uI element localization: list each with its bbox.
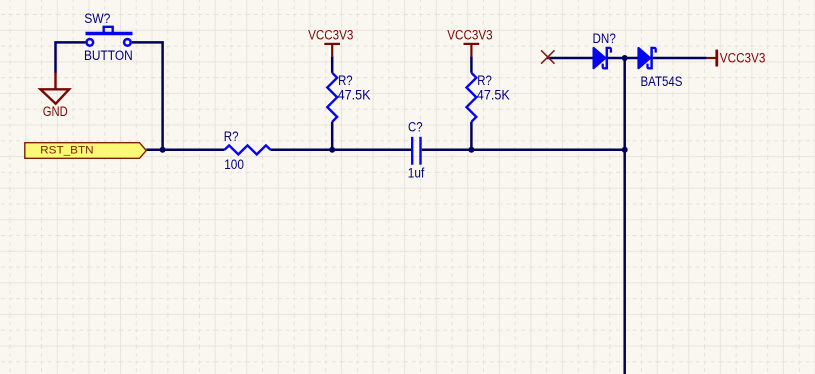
svg-text:47.5K: 47.5K [477, 88, 510, 103]
svg-text:BUTTON: BUTTON [84, 48, 133, 63]
svg-text:SW?: SW? [84, 11, 110, 26]
svg-text:RST_BTN: RST_BTN [40, 144, 93, 156]
svg-text:100: 100 [224, 157, 244, 172]
svg-text:VCC3V3: VCC3V3 [720, 50, 766, 65]
svg-text:BAT54S: BAT54S [641, 74, 683, 89]
svg-text:1uf: 1uf [408, 166, 425, 181]
svg-text:VCC3V3: VCC3V3 [308, 28, 353, 43]
svg-text:R?: R? [477, 73, 492, 88]
svg-text:R?: R? [338, 73, 353, 88]
svg-text:C?: C? [408, 120, 423, 135]
svg-text:VCC3V3: VCC3V3 [447, 28, 492, 43]
svg-text:47.5K: 47.5K [338, 88, 371, 103]
svg-text:DN?: DN? [593, 31, 616, 46]
svg-text:GND: GND [43, 104, 68, 119]
svg-text:R?: R? [224, 129, 239, 144]
